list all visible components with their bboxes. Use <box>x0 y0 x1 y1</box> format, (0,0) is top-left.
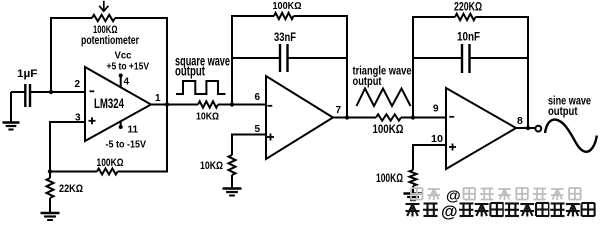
svg-text:1µF: 1µF <box>17 68 38 80</box>
svg-text:5: 5 <box>255 124 261 135</box>
svg-text:4: 4 <box>124 77 130 88</box>
svg-text:10: 10 <box>431 134 443 145</box>
svg-text:1: 1 <box>155 93 161 104</box>
op-amp U1B integrator feedback loop <box>232 16 274 105</box>
watermark black toutiao <box>404 201 596 221</box>
svg-text:33nF: 33nF <box>274 32 296 44</box>
pin 1 output wire <box>151 104 198 106</box>
svg-text:11: 11 <box>128 125 139 136</box>
node junction pin6 <box>230 102 234 106</box>
svg-text:output: output <box>353 74 382 88</box>
watermark gray zhihu <box>411 188 581 205</box>
potentiometer R1 100K zigzag <box>92 15 115 21</box>
node junction pin2/pot <box>49 90 53 94</box>
op-amp U1B triangle <box>266 76 333 159</box>
svg-text:9: 9 <box>433 104 439 115</box>
ground G1 below input cap <box>10 92 12 122</box>
resistor R4 10K series <box>198 101 218 107</box>
ground G3 below 10K <box>223 187 242 189</box>
svg-text:LM324: LM324 <box>94 96 124 111</box>
svg-text:10nF: 10nF <box>457 32 480 44</box>
ground G2 below 22K <box>41 212 60 214</box>
op-amp U1C triangle <box>446 88 516 169</box>
svg-text:3: 3 <box>75 113 81 124</box>
node junction output U1A <box>165 102 169 106</box>
resistor R8 220K feedback <box>455 14 476 20</box>
output terminal circle <box>535 126 541 132</box>
svg-text:output: output <box>548 106 578 118</box>
wire : cap to pin2 <box>31 91 85 93</box>
pin 4 Vcc stub <box>120 75 122 88</box>
sine wave glyph <box>545 120 597 152</box>
svg-text:output: output <box>175 63 205 78</box>
svg-text:6: 6 <box>255 92 261 103</box>
svg-text:100KΩ: 100KΩ <box>376 173 403 185</box>
square wave glyph <box>176 81 226 94</box>
svg-text:100KΩ: 100KΩ <box>97 157 124 169</box>
wire : U1B output pin7 <box>333 117 376 119</box>
svg-text:100KΩ: 100KΩ <box>373 124 404 136</box>
resistor R7 100K series <box>376 114 401 120</box>
wire : potentiometer feedback loop top <box>51 18 92 92</box>
node junction U1B out <box>345 115 349 119</box>
pin5 wire and resistor R6 10K to ground <box>232 135 266 156</box>
capacitor C1 1uF input <box>11 91 24 93</box>
pin10 wire and resistor R9 100K to ground <box>413 145 446 170</box>
svg-text:8: 8 <box>517 115 523 127</box>
node junction pin9 <box>411 115 415 119</box>
node junction U1C out <box>526 126 530 130</box>
triangle wave glyph <box>357 89 411 107</box>
node junction divider <box>48 169 52 173</box>
potentiometer wiper arrow <box>103 1 105 11</box>
svg-text:+5 to +15V: +5 to +15V <box>107 62 150 73</box>
op-amp U1C feedback loop <box>413 17 455 118</box>
resistor R5 100K feedback <box>274 13 294 19</box>
svg-text:10KΩ: 10KΩ <box>200 160 223 172</box>
svg-text:22KΩ: 22KΩ <box>59 183 83 195</box>
svg-text:-5 to -15V: -5 to -15V <box>106 140 147 151</box>
resistor R3 22K to ground <box>49 172 51 179</box>
svg-text:@: @ <box>441 202 458 221</box>
svg-text:2: 2 <box>75 79 81 90</box>
svg-text:100KΩ: 100KΩ <box>273 0 302 12</box>
svg-text:Vcc: Vcc <box>115 50 132 62</box>
op-amp U1A LM324 triangle <box>85 67 151 141</box>
wire : pin3 stub and down to divider <box>50 122 85 172</box>
svg-text:7: 7 <box>336 105 342 116</box>
capacitor C3 10nF <box>413 57 461 59</box>
ground G4 below 100K <box>404 192 423 194</box>
svg-text:220KΩ: 220KΩ <box>454 2 482 14</box>
wire : U1C output pin8 <box>516 127 536 129</box>
svg-text:potentiometer: potentiometer <box>81 35 139 47</box>
pin 11 Vee stub <box>120 121 122 128</box>
capacitor C2 33nF <box>232 57 279 59</box>
svg-text:10KΩ: 10KΩ <box>196 111 219 123</box>
resistor R2 100K feedback to pin3 <box>50 171 97 173</box>
